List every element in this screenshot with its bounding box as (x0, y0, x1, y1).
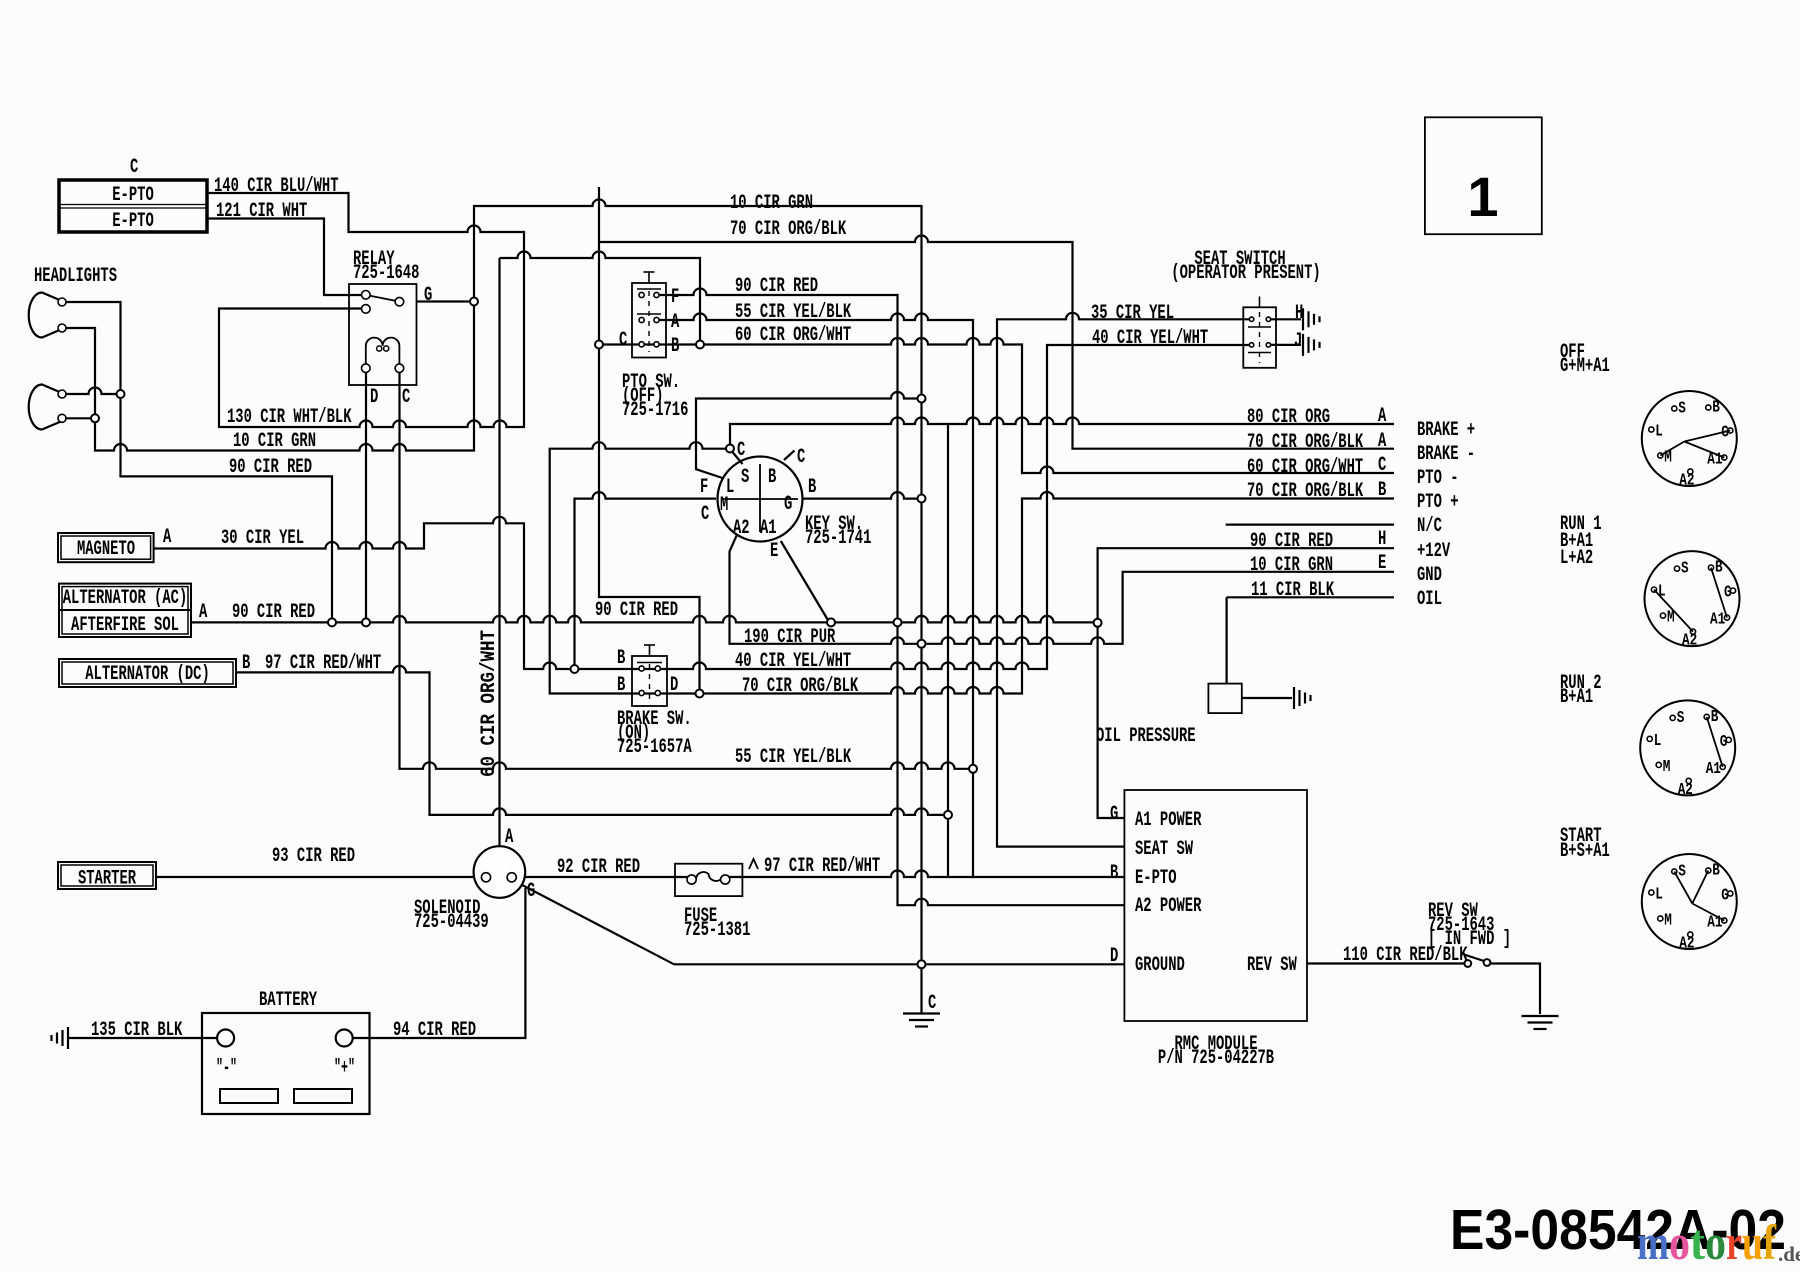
svg-text:A: A (505, 826, 513, 849)
wire: starter 93 CIR RED (156, 876, 483, 878)
junction relay D coil to 90 CIR RED (362, 618, 370, 626)
svg-text:725-1648: 725-1648 (353, 262, 419, 285)
wire: vertical 599 trunk / 90 CIR RED corner to brake D (599, 187, 700, 690)
wire: 60 CIR ORG/WHT row PTO B to PTO- connector row (599, 343, 700, 345)
svg-text:H: H (1378, 528, 1386, 551)
svg-text:C: C (737, 439, 745, 462)
svg-text:D: D (370, 386, 378, 409)
svg-text:PTO -: PTO - (1417, 467, 1459, 490)
caret A above 97 label (749, 859, 758, 869)
key switch 725-1741 (718, 457, 803, 542)
fuse 725-1381 (675, 864, 742, 896)
svg-text:A1: A1 (760, 517, 777, 540)
svg-text:GROUND: GROUND (1135, 954, 1185, 977)
wire: key E diagonal (781, 541, 829, 621)
svg-text:A2: A2 (1679, 472, 1694, 491)
svg-text:A2: A2 (1682, 632, 1697, 651)
svg-text:A: A (1378, 430, 1386, 453)
svg-text:S: S (1678, 863, 1686, 882)
svg-text:10 CIR GRN: 10 CIR GRN (730, 192, 813, 215)
wire: solenoid A feed 60 CIR ORG/WHT vertical (498, 258, 500, 846)
svg-text:u: u (1742, 1214, 1763, 1270)
wire: key G row right to ground trunk (803, 492, 918, 499)
svg-text:S: S (741, 466, 749, 489)
seat switch box (1243, 307, 1276, 368)
svg-text:B: B (671, 335, 679, 358)
svg-text:A: A (671, 311, 679, 334)
svg-text:A2: A2 (1679, 935, 1694, 954)
svg-text:r: r (1726, 1214, 1742, 1270)
junction 90 CIR RED to +12V riser (1094, 619, 1102, 627)
junction relay G to 10 CIR GRN (470, 298, 478, 306)
node A headlights (91, 414, 99, 422)
svg-text:P/N 725-04227B: P/N 725-04227B (1158, 1047, 1274, 1070)
svg-text:STARTER: STARTER (78, 868, 136, 891)
svg-text:B: B (1712, 862, 1720, 881)
wire: PTO F 90 CIR RED row down to afterfire row (657, 289, 898, 619)
PTO switch 725-1716 (632, 283, 666, 358)
svg-text:121 CIR WHT: 121 CIR WHT (216, 200, 307, 223)
svg-text:A2: A2 (1678, 781, 1693, 800)
svg-text:A: A (1378, 405, 1386, 428)
junction 40 CIR YEL/WHT at brake switch (571, 665, 579, 673)
wire: seat switch H ground lead (1268, 318, 1301, 320)
svg-text:90 CIR RED: 90 CIR RED (232, 601, 315, 624)
headlight lamp 2 (29, 385, 62, 430)
svg-text:40 CIR YEL/WHT: 40 CIR YEL/WHT (1092, 327, 1208, 350)
svg-text:C: C (130, 156, 138, 179)
wire: key M row left / 40 net vertical (575, 492, 717, 669)
wire: 11 CIR BLK OIL row (1227, 596, 1394, 598)
svg-text:135 CIR BLK: 135 CIR BLK (91, 1019, 182, 1042)
svg-text:L+A2: L+A2 (1560, 547, 1593, 570)
svg-text:140 CIR BLU/WHT: 140 CIR BLU/WHT (214, 175, 339, 198)
svg-text:f: f (1763, 1214, 1777, 1270)
svg-text:C: C (701, 503, 709, 526)
svg-text:90 CIR RED: 90 CIR RED (595, 599, 678, 622)
svg-text:B: B (1712, 399, 1720, 418)
svg-text:B: B (1715, 559, 1723, 578)
svg-text:B: B (768, 466, 776, 489)
svg-text:A1: A1 (1706, 760, 1721, 779)
wire: key L / F wire to junction on ground trunk (696, 392, 918, 478)
junction key G wire to ground trunk (918, 495, 926, 503)
svg-text:90 CIR RED: 90 CIR RED (735, 275, 818, 298)
svg-text:ALTERNATOR (AC): ALTERNATOR (AC) (63, 587, 188, 610)
svg-text:HEADLIGHTS: HEADLIGHTS (34, 265, 117, 288)
svg-text:G: G (424, 284, 432, 307)
wire: row joining 60 net to solenoid A (500, 252, 701, 341)
wire: fuse to RMC 97 CIR RED/WHT (729, 871, 973, 878)
svg-text:B: B (1711, 708, 1719, 727)
wire: RMC REV SW row 110 CIR RED/BLK (1307, 962, 1464, 964)
wire: battery plus 94 CIR RED (352, 888, 525, 1038)
headlight lamp 1 (29, 293, 62, 338)
svg-text:E-PTO: E-PTO (112, 184, 154, 207)
junction 55 CIR YEL/BLK riser (969, 765, 977, 773)
junction 190 CIR PUR to ground trunk (918, 640, 926, 648)
svg-text:SEAT SW: SEAT SW (1135, 838, 1193, 861)
svg-text:G: G (1721, 887, 1729, 906)
wire: 90 CIR RED afterfire main row (191, 616, 1094, 623)
wire: key C diagonal into switch (732, 452, 743, 465)
svg-text:130 CIR WHT/BLK: 130 CIR WHT/BLK (227, 406, 352, 429)
svg-text:S: S (1678, 400, 1686, 419)
svg-text:A: A (199, 601, 207, 624)
svg-text:(OPERATOR PRESENT): (OPERATOR PRESENT) (1171, 262, 1320, 285)
svg-text:t: t (1690, 1214, 1705, 1270)
svg-text:OIL PRESSURE: OIL PRESSURE (1096, 725, 1196, 748)
wire: key C stub up / 80 CIR ORG row (730, 418, 1394, 446)
ALTERNATOR AC / AFTERFIRE box (59, 584, 191, 637)
svg-text:BATTERY: BATTERY (259, 989, 317, 1012)
STARTER box (58, 862, 156, 889)
svg-text:"+": "+" (334, 1057, 355, 1080)
ALTERNATOR DC box (59, 659, 236, 687)
junction 90 CIR RED / headlight B riser (328, 618, 336, 626)
svg-text:94 CIR RED: 94 CIR RED (393, 1019, 476, 1042)
wire: 97 riser to 80 row (vertical 948) (947, 424, 949, 877)
svg-text:40 CIR YEL/WHT: 40 CIR YEL/WHT (735, 650, 851, 673)
node C key switch (726, 445, 734, 453)
svg-text:725-04439: 725-04439 (414, 911, 489, 934)
motoruf.de watermark (1637, 1214, 1800, 1270)
svg-text:GND: GND (1417, 564, 1442, 587)
wire: relay coil C vertical / 55 CIR YEL/BLK lower row (400, 373, 970, 769)
MAGNETO box (58, 533, 154, 562)
wire: relay G pin to junction (417, 300, 471, 302)
RMC module box (1124, 790, 1307, 1021)
svg-text:A1 POWER: A1 POWER (1135, 809, 1201, 832)
svg-text:D: D (670, 674, 678, 697)
wire: relay coil D vertical (365, 373, 367, 619)
svg-text:97 CIR RED/WHT: 97 CIR RED/WHT (764, 855, 880, 878)
junction 97 CIR RED/WHT riser (944, 811, 952, 819)
wire: 35 CIR YEL seat switch H to RMC SEAT SW (997, 313, 1254, 847)
svg-text:+12V: +12V (1417, 540, 1450, 563)
junction key E to 90 CIR RED (827, 618, 835, 626)
svg-text:60 CIR ORG/WHT: 60 CIR ORG/WHT (478, 630, 501, 777)
wire: alternator DC 97 CIR RED/WHT run (236, 666, 944, 815)
svg-text:AFTERFIRE SOL: AFTERFIRE SOL (71, 614, 179, 637)
wire: key A2 190 CIR PUR to GND connector row (730, 536, 1395, 644)
wire: battery minus 135 CIR BLK (68, 1037, 218, 1039)
svg-text:BRAKE -: BRAKE - (1417, 443, 1475, 466)
svg-text:725-1657A: 725-1657A (617, 736, 692, 759)
svg-text:90 CIR RED: 90 CIR RED (1250, 530, 1333, 553)
wire: +12V 90 CIR RED H row / RMC A1 POWER (1098, 548, 1394, 818)
svg-text:L: L (1655, 423, 1663, 442)
ground oil pressure (1293, 687, 1295, 709)
svg-text:C: C (619, 329, 627, 352)
svg-text:A2 POWER: A2 POWER (1135, 895, 1201, 918)
svg-text:A2: A2 (733, 517, 750, 540)
svg-text:92 CIR RED: 92 CIR RED (557, 856, 640, 879)
svg-text:G: G (1720, 733, 1728, 752)
svg-text:MAGNETO: MAGNETO (77, 538, 135, 561)
svg-text:A1: A1 (1710, 611, 1725, 630)
svg-text:70 CIR ORG/BLK: 70 CIR ORG/BLK (1247, 431, 1363, 454)
sheet number box (1425, 117, 1542, 234)
svg-text:70 CIR ORG/BLK: 70 CIR ORG/BLK (742, 675, 858, 698)
svg-text:55 CIR YEL/BLK: 55 CIR YEL/BLK (735, 301, 851, 324)
svg-text:L: L (1655, 886, 1663, 905)
relay coil (366, 338, 400, 364)
E-PTO connector box (59, 180, 207, 232)
relay 725-1648 (349, 284, 417, 385)
junction 70 CIR ORG/BLK at brake switch D (696, 690, 704, 698)
ground C (903, 1012, 940, 1014)
svg-text:E: E (1378, 552, 1386, 575)
wire: key C / 70 CIR ORG/BLK bottom row to PTO+ connector row (550, 442, 1394, 693)
svg-text:725-1716: 725-1716 (622, 399, 688, 422)
wire: headlight B - 90 CIR RED riser (62, 302, 332, 619)
wire: 40 CIR YEL/WHT seat J - brake - 30 CIR YEL magneto run (154, 345, 1254, 669)
svg-text:N/C: N/C (1417, 515, 1442, 538)
ground seat J (1302, 334, 1304, 356)
svg-text:o: o (1669, 1214, 1690, 1270)
svg-text:60 CIR ORG/WHT: 60 CIR ORG/WHT (735, 324, 851, 347)
svg-text:E: E (770, 540, 778, 563)
junction 60 CIR ORG/WHT left (595, 341, 603, 349)
rev switch contacts (1464, 960, 1471, 967)
svg-text:11 CIR BLK: 11 CIR BLK (1251, 579, 1334, 602)
wire: E-PTO 140 CIR BLU/WHT to 130 CIR WHT/BLK run (207, 193, 524, 427)
svg-text:80 CIR ORG: 80 CIR ORG (1247, 406, 1330, 429)
svg-text:L: L (1654, 732, 1662, 751)
wire: PTO A 55 CIR YEL/BLK row down and to RMC E-PTO (657, 314, 1125, 878)
svg-text:B: B (617, 674, 625, 697)
svg-text:B: B (1378, 479, 1386, 502)
svg-text:.de: .de (1778, 1242, 1800, 1266)
svg-text:D: D (1110, 945, 1118, 968)
svg-text:G: G (1724, 584, 1732, 603)
svg-text:A: A (163, 526, 171, 549)
svg-text:70 CIR ORG/BLK: 70 CIR ORG/BLK (730, 218, 846, 241)
svg-text:E-PTO: E-PTO (112, 210, 154, 233)
wire: headlight lamp2 terminal wires (62, 388, 117, 395)
svg-text:"-": "-" (216, 1057, 237, 1080)
key position RUN 1 circle (1645, 551, 1740, 646)
battery (202, 1013, 370, 1114)
svg-text:10 CIR GRN: 10 CIR GRN (1250, 554, 1333, 577)
svg-text:[ IN FWD ]: [ IN FWD ] (1428, 928, 1511, 951)
svg-text:10 CIR GRN: 10 CIR GRN (233, 430, 316, 453)
wire: solenoid G diagonal to ground row (515, 881, 675, 964)
junction ground row to ground trunk (918, 960, 926, 968)
svg-text:G: G (784, 493, 792, 516)
svg-text:93 CIR RED: 93 CIR RED (272, 845, 355, 868)
solenoid 725-04439 (474, 846, 526, 898)
svg-text:725-1381: 725-1381 (684, 919, 750, 942)
brake switch 725-1657A (632, 656, 667, 706)
ground battery negative (67, 1027, 69, 1049)
svg-text:F: F (700, 476, 708, 499)
wire: key C2 stub diagonal (784, 451, 795, 461)
wire: seat switch J ground lead (1268, 344, 1301, 346)
junction 90 CIR RED / A2 riser (894, 618, 902, 626)
junction 60 CIR ORG/WHT right (696, 341, 704, 349)
wire: RMC A2 POWER row (898, 626, 1125, 905)
key position OFF circle (1642, 391, 1737, 486)
svg-text:E-PTO: E-PTO (1135, 867, 1177, 890)
svg-text:B+S+A1: B+S+A1 (1560, 840, 1610, 863)
svg-text:190 CIR PUR: 190 CIR PUR (744, 626, 835, 649)
svg-text:S: S (1681, 560, 1689, 579)
svg-text:90 CIR RED: 90 CIR RED (229, 456, 312, 479)
svg-text:1: 1 (1467, 165, 1498, 228)
key position RUN 2 circle (1640, 700, 1735, 795)
svg-text:35 CIR YEL: 35 CIR YEL (1091, 302, 1174, 325)
svg-text:G: G (1110, 803, 1118, 826)
svg-text:H: H (1295, 302, 1303, 325)
svg-text:70 CIR ORG/BLK: 70 CIR ORG/BLK (1247, 480, 1363, 503)
junction key L wire to ground trunk (918, 395, 926, 403)
svg-text:725-1741: 725-1741 (805, 527, 871, 550)
svg-text:B+A1: B+A1 (1560, 686, 1593, 709)
ground rev switch (1522, 1015, 1559, 1017)
svg-text:B: B (242, 652, 250, 675)
svg-text:OIL: OIL (1417, 588, 1442, 611)
svg-text:B: B (1110, 862, 1118, 885)
svg-text:o: o (1705, 1214, 1726, 1270)
key position START circle (1642, 854, 1737, 949)
svg-text:C: C (928, 992, 936, 1015)
wire: oil pressure switch ground lead (1242, 697, 1292, 699)
svg-text:97 CIR RED/WHT: 97 CIR RED/WHT (265, 652, 381, 675)
wire: solenoid to fuse 92 CIR RED (517, 876, 689, 878)
wire: headlights A - 10 CIR GRN - relay G - ground trunk (62, 200, 922, 1014)
svg-text:M: M (1663, 758, 1671, 777)
svg-text:G: G (527, 880, 535, 903)
svg-text:BRAKE +: BRAKE + (1417, 419, 1475, 442)
ground seat H (1302, 308, 1304, 330)
svg-text:m: m (1637, 1214, 1669, 1270)
wire: E-PTO 121 CIR WHT to relay (207, 219, 361, 296)
svg-text:ALTERNATOR (DC): ALTERNATOR (DC) (85, 663, 210, 686)
svg-text:F: F (671, 286, 679, 309)
svg-text:J: J (1294, 330, 1302, 353)
svg-text:M: M (720, 494, 728, 517)
wire: 70 CIR ORG/BLK top row to BRAKE- connector row (599, 236, 1394, 449)
svg-text:55 CIR YEL/BLK: 55 CIR YEL/BLK (735, 746, 851, 769)
svg-text:C: C (797, 446, 805, 469)
svg-text:REV SW: REV SW (1247, 954, 1297, 977)
svg-text:G+M+A1: G+M+A1 (1560, 355, 1610, 378)
wire: N/C row (1226, 523, 1394, 525)
svg-text:PTO +: PTO + (1417, 491, 1459, 514)
svg-text:M: M (1664, 912, 1672, 931)
wire: ground row to RMC GROUND (674, 963, 1124, 965)
svg-text:30 CIR YEL: 30 CIR YEL (221, 527, 304, 550)
svg-text:B: B (808, 476, 816, 499)
svg-text:C: C (402, 386, 410, 409)
svg-text:60 CIR ORG/WHT: 60 CIR ORG/WHT (1247, 456, 1363, 479)
node B headlights (117, 390, 125, 398)
svg-text:C: C (1378, 454, 1386, 477)
oil pressure switch box (1208, 684, 1241, 714)
svg-text:B: B (617, 647, 625, 670)
svg-text:S: S (1677, 709, 1685, 728)
